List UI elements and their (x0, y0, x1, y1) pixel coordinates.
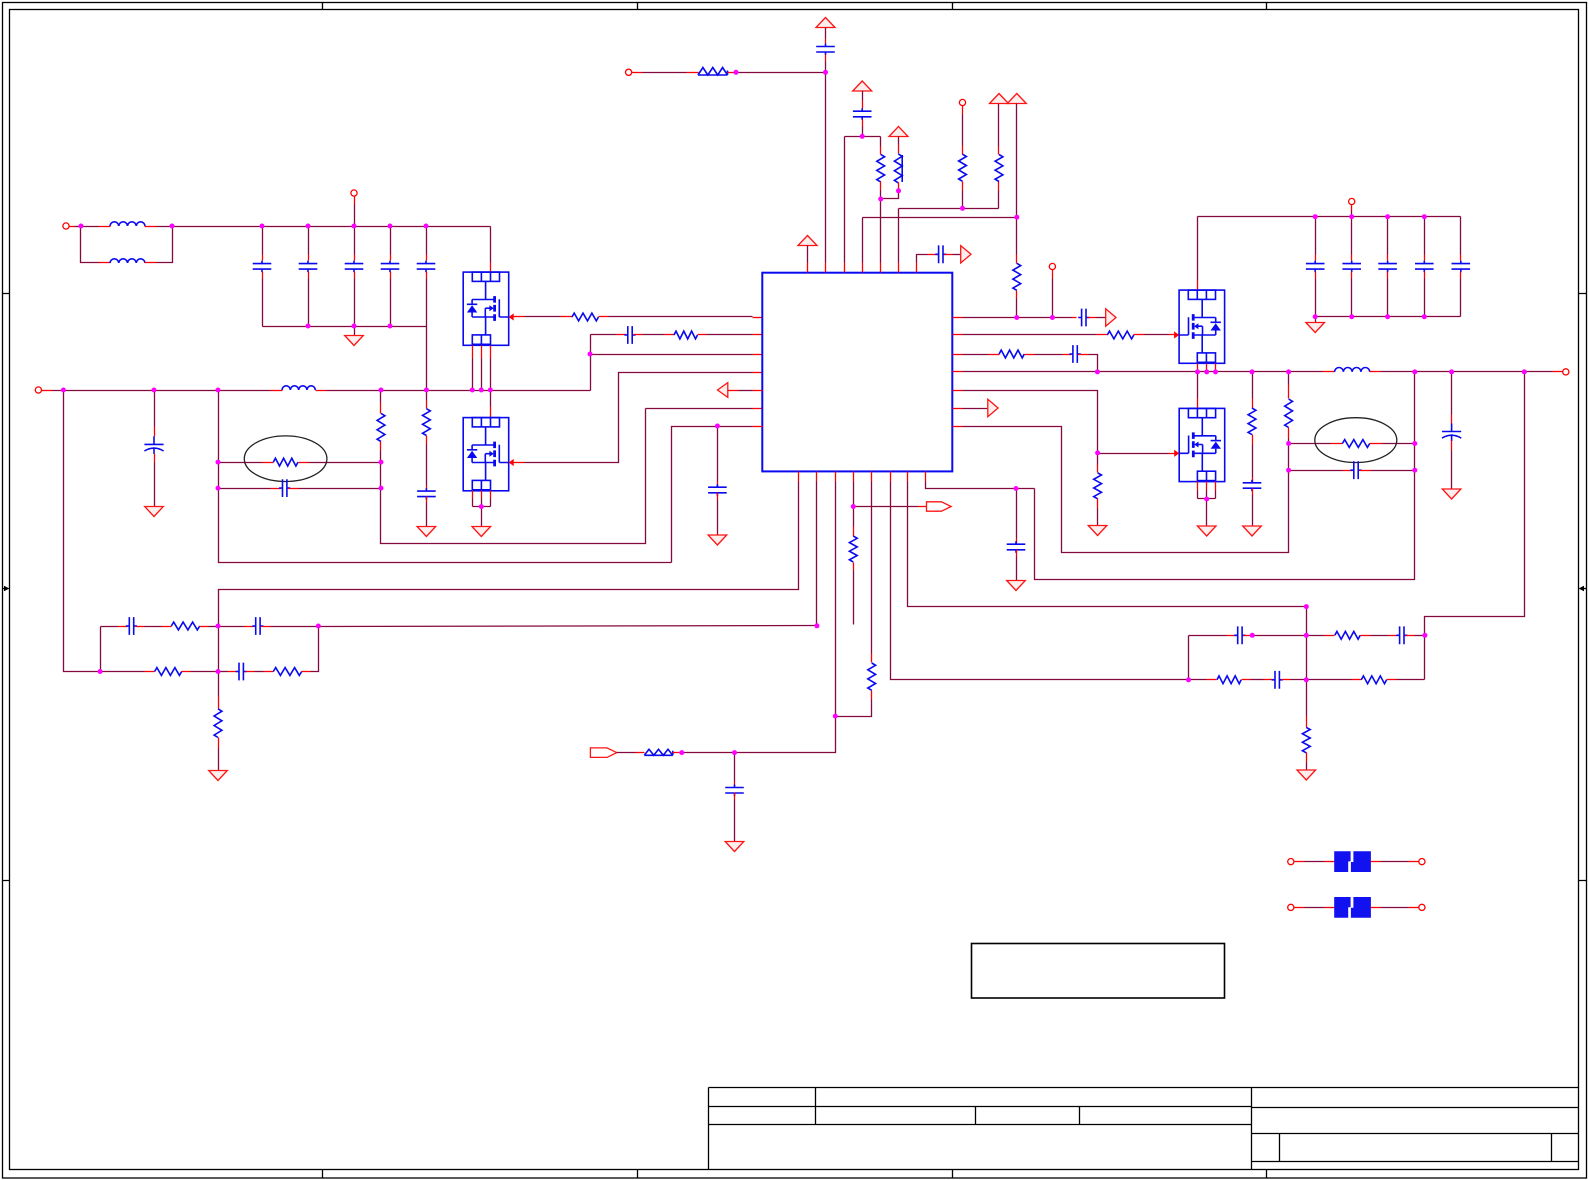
junction (1412, 369, 1417, 374)
wire Cr top x1460.8 (1460, 217, 1462, 255)
junction (1014, 486, 1019, 491)
junction (1304, 633, 1309, 638)
wire x218 down (219, 391, 672, 563)
junction (1412, 468, 1417, 473)
junction (1385, 214, 1390, 219)
pin R1374.1 (1352, 679, 1362, 681)
resistor R1229 (1217, 676, 1241, 684)
pin R426.2 (426, 436, 428, 445)
pin R1229.1 (1207, 679, 1217, 681)
pin R871.2 (871, 691, 873, 700)
resistor R871 (868, 663, 876, 690)
ground (1088, 526, 1107, 536)
wire rail VIN top (157, 226, 491, 228)
ferrite FB1 (698, 68, 728, 76)
wire to U1 T2 (825, 73, 827, 263)
wire x1414 (1035, 372, 1415, 580)
pin Q3 gate wire (1169, 334, 1180, 336)
pin C426b.2 (717, 493, 719, 500)
pin C354.2 (354, 272, 356, 279)
wire Q2 S x490.3 (490, 499, 492, 507)
transistor Q4 (1174, 408, 1225, 481)
junction (1313, 214, 1318, 219)
wire gnd stub2 (1315, 317, 1317, 323)
inductor L4 (1335, 368, 1370, 372)
wire x426 c (426, 503, 428, 527)
pin C1016.2 (1016, 550, 1018, 557)
wire VOUT cap rail (1198, 216, 1461, 218)
pin U1 L3 (753, 354, 763, 356)
wire row626 d (209, 626, 219, 628)
port J1 (63, 223, 69, 229)
power VCC6 (798, 236, 817, 246)
title block right h-line 2 (1252, 1133, 1579, 1135)
pin C1252.2 (1252, 489, 1254, 495)
pin U1 R6 (953, 408, 963, 410)
ground (1297, 770, 1316, 780)
capacitor C734 (725, 785, 744, 797)
border zone ticks left (3, 294, 10, 881)
pin R1347.2 (1361, 635, 1371, 637)
wire Q2 src bracket (473, 506, 491, 508)
pin R1252.1 (1252, 399, 1254, 409)
junction (814, 623, 819, 628)
resistor R999 (995, 155, 1003, 182)
note box (972, 944, 1225, 999)
pin F2.1 (1325, 907, 1335, 909)
pin Q4 S x1206.7 (1206, 482, 1208, 491)
capacitor Cr at x1424.3 (1415, 261, 1434, 273)
wire pin890 (891, 482, 1207, 680)
capacitor C1252 (1243, 480, 1262, 491)
junction (388, 324, 393, 329)
ground (417, 527, 436, 537)
resistor R354r (999, 350, 1024, 358)
capacitor C at x262 (253, 261, 272, 273)
wire Q2 S x472.3 (472, 499, 474, 507)
wire C1016 bot (1016, 557, 1018, 581)
junction (470, 388, 475, 393)
pin FB1.2 (728, 72, 737, 74)
wire pin335r b (1145, 334, 1169, 336)
border center arrow right (1584, 588, 1586, 590)
pin Csns2.1 (1343, 470, 1353, 472)
title block size cell divider (1279, 1134, 1281, 1162)
junction (1349, 214, 1354, 219)
pin R898.2 (898, 183, 900, 191)
wire pin335 b (643, 334, 665, 336)
junction (1195, 369, 1200, 374)
pin C426b.1 (717, 482, 719, 488)
pin R381.2 (380, 442, 382, 451)
wire x218 tail (218, 749, 220, 771)
junction (1286, 441, 1291, 446)
ground (1243, 526, 1262, 536)
junction (860, 134, 865, 139)
pin R354r.1 (989, 354, 1000, 356)
pin U1 T7 (916, 263, 918, 273)
pin R335.1 (665, 334, 675, 336)
fuse F1 (1334, 851, 1371, 872)
pin Q1 drain (490, 263, 492, 273)
pin U1 B6 (890, 472, 892, 482)
wire Csns2 row a (1289, 470, 1343, 472)
ground (1306, 323, 1325, 333)
wire pin408r (963, 408, 988, 410)
junction (679, 750, 684, 755)
wire cap to junction (825, 62, 827, 73)
pin R880.1 (880, 147, 882, 155)
wire C154 bot (154, 463, 156, 507)
pin C426.1 (426, 255, 428, 261)
wire C bot x308 (308, 279, 310, 327)
pin J4 (632, 72, 643, 74)
pin C1239.1 (1227, 635, 1237, 637)
wire pin853 a (853, 482, 855, 507)
wire F2 a (1305, 907, 1325, 909)
wire row671 b (191, 671, 219, 673)
wire pin354r c (1089, 355, 1098, 372)
resistor R218 (214, 709, 222, 738)
wire C154 top (154, 391, 156, 427)
junction (715, 424, 720, 429)
pin C154.2 (154, 454, 156, 463)
wire x1016 down2 (1016, 218, 1018, 255)
port J3 (35, 387, 41, 393)
wire Q1 S to rail x472.3 (472, 359, 474, 391)
wire C top x390 (390, 227, 392, 255)
pin Cr1424.3.1 (1424, 255, 1426, 261)
wire C top x262 (262, 227, 264, 255)
pin F1.2 (1371, 861, 1381, 863)
junction (1422, 314, 1427, 319)
junction (260, 224, 265, 229)
pin tag stub (918, 506, 927, 508)
pin C1451.1 (1451, 415, 1453, 424)
wire x1097 low b (1097, 509, 1099, 526)
wire pin317 a (963, 317, 1072, 319)
junction (79, 224, 84, 229)
wire C bot x354 (354, 279, 356, 327)
wire Cr top x1424.3 (1424, 217, 1426, 255)
wire VIN to Q1 top (490, 227, 492, 263)
junction (152, 388, 157, 393)
resistor R287 (273, 668, 301, 676)
resistor R962 (959, 154, 967, 181)
junction (216, 486, 221, 491)
wire row680 d (1397, 679, 1425, 681)
pin Q1 S x490.3 (490, 346, 492, 359)
wire R898 to x880 (881, 191, 899, 199)
wire C734 top (734, 753, 736, 782)
wire x853 tail (853, 571, 855, 625)
pin Cr1387.6.1 (1387, 255, 1389, 261)
wire Q2 gate (525, 373, 753, 463)
ferrite FB2 (644, 749, 673, 755)
wire Q4 S x1206.7 (1206, 491, 1208, 499)
wire pwr to cap (825, 28, 827, 39)
junction (352, 324, 357, 329)
capacitor C862 (853, 108, 872, 120)
wire C862 to junction (862, 127, 864, 137)
wire Q2 gnd stub (481, 507, 483, 527)
pin J6 (1052, 270, 1054, 279)
wire pin853 b (853, 507, 855, 527)
pin U1 B8 (925, 472, 927, 482)
pin Cr1387.6.2 (1387, 272, 1389, 279)
pin Cr1351.7.2 (1351, 272, 1353, 279)
pin Csns2.2 (1360, 470, 1371, 472)
pin J8 (1351, 205, 1353, 211)
wire x1288 b (1288, 439, 1290, 444)
pin Q1 S x472.3 (472, 346, 474, 359)
port J10 (1419, 859, 1425, 865)
wire Rsns row a (219, 462, 263, 464)
wire x1288 a (1288, 372, 1290, 385)
ground (345, 336, 364, 346)
wire pwr6 (807, 246, 809, 263)
pin U1 T3 (844, 263, 846, 273)
capacitor C825 (816, 44, 835, 56)
wire x426 a (426, 391, 428, 401)
wire to U1 pin L3 (591, 354, 753, 356)
resistor Rsns2 (1342, 440, 1369, 448)
wire x962 b (962, 191, 964, 209)
junction (1286, 369, 1291, 374)
pin R335r.1 (1097, 334, 1108, 336)
wire x1097 low a (1097, 453, 1099, 465)
port J5 (959, 99, 965, 105)
wire pin907 (908, 482, 1307, 607)
port J7 (1563, 369, 1569, 375)
wire net top b (737, 72, 826, 74)
capacitor Csns (279, 479, 290, 497)
capacitor C916 (935, 245, 946, 263)
pin U1 R7 (953, 426, 963, 428)
pin C1401.2 (1406, 635, 1415, 637)
capacitor Csns2 (1350, 461, 1361, 479)
pin L1.1 (99, 226, 111, 228)
pin R1252.2 (1252, 435, 1254, 445)
pin C426.2 (426, 497, 428, 503)
junction (1449, 369, 1454, 374)
pin R1016.1 (1016, 255, 1018, 264)
wire row635 d (1415, 635, 1425, 637)
pin L3.1 (271, 390, 283, 392)
pin U1 R5 (953, 390, 963, 392)
pin U1 B3 (835, 472, 837, 482)
wire cap bank bottom rail (263, 326, 427, 328)
wire J8 down (1351, 211, 1353, 217)
capacitor C1239 (1234, 626, 1245, 644)
wire row671 d (255, 671, 264, 673)
capacitor C1277 (1272, 671, 1283, 689)
wire x1252 b (1252, 445, 1254, 478)
junction (588, 352, 593, 357)
pin Rsns2.2 (1370, 443, 1383, 445)
pin C862.2 (862, 120, 864, 127)
wire row626 a (100, 627, 102, 672)
pin Q2 S x490.3 (490, 491, 492, 499)
resistor R335r (1107, 331, 1134, 339)
pin C825.1 (825, 39, 827, 44)
capacitor C at x354 (345, 261, 364, 273)
wire x381 a (380, 391, 382, 403)
junction (1204, 497, 1209, 502)
port tag EN (590, 748, 616, 758)
port J8 (1349, 198, 1355, 204)
wire pin798 (219, 482, 799, 627)
wire Csns row a (219, 488, 271, 490)
pin U1 L4 (753, 372, 763, 374)
junction (1250, 369, 1255, 374)
transistor Q3 (1174, 290, 1225, 363)
junction (732, 750, 737, 755)
power VCC3 (889, 127, 908, 137)
wire C top x354 (354, 227, 356, 255)
wire pin925 (926, 482, 1035, 489)
junction (316, 624, 321, 629)
fuse F2 (1334, 897, 1371, 918)
junction (306, 324, 311, 329)
pin Q1 gate (513, 316, 525, 318)
pin Csns.2 (289, 488, 299, 490)
pin FB2.1 (636, 752, 645, 754)
pin J2 (354, 197, 356, 205)
ground (209, 771, 228, 781)
resistor Rsns (273, 458, 298, 466)
pin L4.1 (1323, 371, 1335, 373)
wire Rsns row b (309, 462, 381, 464)
capacitor C241 (236, 663, 247, 681)
pin C1252.1 (1252, 478, 1254, 483)
junction (1050, 315, 1055, 320)
ground (472, 527, 491, 537)
pin C100.2 (136, 626, 145, 628)
inductor L3 (282, 386, 315, 390)
wire rail VOUT (1381, 371, 1553, 373)
pin Rsns.2 (299, 462, 309, 464)
wire pin354r b (1035, 354, 1063, 356)
wire row626 b (101, 626, 118, 628)
pin R154.1 (145, 671, 155, 673)
wire pwr3 (898, 137, 900, 145)
junction (896, 188, 901, 193)
junction (833, 714, 838, 719)
pin R gate1.2 (599, 316, 609, 318)
wire C1016 top (1016, 489, 1018, 539)
wire x1306 (1306, 607, 1308, 717)
wire Cr top x1351.7 (1351, 217, 1353, 255)
wire Q4 S x1215.5 (1215, 491, 1217, 499)
ellipse marker right (1315, 418, 1397, 463)
pin C1277.1 (1264, 679, 1274, 681)
wire Q4 gnd stub (1206, 499, 1208, 527)
resistor R898 thermistor (894, 154, 902, 183)
capacitor C335 (624, 326, 635, 344)
junction (98, 669, 103, 674)
ground (708, 535, 727, 545)
pin C1401.1 (1389, 635, 1398, 637)
pin Q3 S x1215.5 (1215, 364, 1217, 372)
junction (851, 504, 856, 509)
pin R1306.2 (1306, 753, 1308, 763)
pin F1.1 (1325, 861, 1335, 863)
junction (216, 388, 221, 393)
wire x1252 a (1252, 372, 1254, 399)
pin J5 (962, 106, 964, 115)
pin U1 L6 (753, 408, 763, 410)
inductor L2 (110, 259, 145, 263)
wire C734 bot (734, 800, 736, 842)
pin Cr1424.3.2 (1424, 272, 1426, 279)
wire row671 e (311, 627, 319, 672)
border zone ticks right (1579, 294, 1587, 881)
pin C308.1 (308, 255, 310, 261)
pin U1 R3 (953, 354, 963, 356)
pin Cr1351.7.1 (1351, 255, 1353, 261)
wire x1016 down3 (1016, 299, 1018, 318)
pin R853.2 (853, 563, 855, 571)
resistor R1252 (1248, 408, 1256, 435)
junction (61, 388, 66, 393)
pin L1.2 (145, 226, 157, 228)
capacitor Cr at x1315.2 (1306, 261, 1325, 273)
wire to tag (854, 506, 918, 508)
title block h-line row3 (709, 1124, 1252, 1126)
capacitor C at x426 (417, 261, 436, 273)
pin U1 T6 (898, 263, 900, 273)
pin R218.2 (218, 738, 220, 749)
pin C100.1 (118, 626, 128, 628)
wire C bot x262 (262, 279, 264, 327)
ellipse marker (244, 436, 327, 482)
junction (1286, 468, 1291, 473)
pin C1016.1 (1016, 539, 1018, 545)
wire pin898 down (898, 209, 900, 263)
pin C335.2 (634, 334, 643, 336)
junction (479, 388, 484, 393)
wire row626 e (219, 626, 245, 628)
pin C1451.2 (1451, 441, 1453, 451)
capacitor C317 (1078, 309, 1089, 327)
pin R871.1 (871, 654, 873, 663)
ground (1007, 581, 1026, 591)
pin C426.2 (426, 272, 428, 279)
wire Q4 S x1197.5 (1197, 491, 1199, 499)
pin R1016.2 (1016, 291, 1018, 299)
port J9 (1288, 859, 1294, 865)
pin C308.2 (308, 272, 310, 279)
wire Cr top x1315.2 (1315, 217, 1317, 255)
wire Cr bot x1315.2 (1315, 279, 1317, 317)
pin C916.2 (945, 254, 953, 256)
pin C317.1 (1072, 317, 1077, 319)
resistor R426 (423, 409, 431, 436)
wire x1016 down (1016, 104, 1018, 218)
junction (1422, 633, 1427, 638)
capacitor C100 (126, 617, 137, 635)
wire rail SW right (327, 390, 591, 392)
wire rail SW left (53, 390, 271, 392)
wire x880 to U1 (880, 199, 882, 263)
title block v-line 3 (1079, 1107, 1081, 1125)
wire x218 mid (218, 627, 220, 697)
wire C bot x390 (390, 279, 392, 327)
wire J2 down (354, 205, 356, 227)
junction (216, 669, 221, 674)
pin U1 R4 (953, 371, 963, 373)
